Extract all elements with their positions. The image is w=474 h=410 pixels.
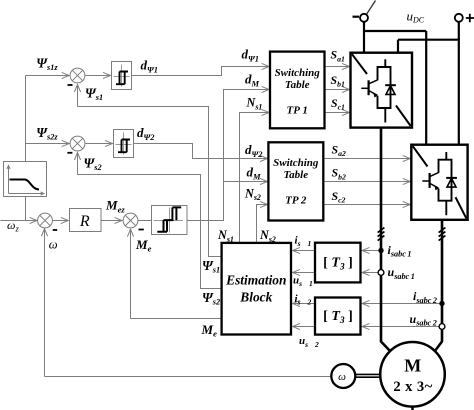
svg-text:TP 2: TP 2	[285, 195, 307, 207]
wire N_s1 to TP1	[240, 113, 270, 244]
wire node1 to hysteresis H1	[86, 75, 111, 77]
inverter VSI1 box	[351, 53, 413, 128]
svg-text:Sa1: Sa1	[331, 48, 345, 64]
svg-text:Ψs2: Ψs2	[84, 155, 102, 172]
wire S_c2	[324, 204, 410, 206]
shaft coupling lines	[355, 374, 382, 377]
svg-text:Sc2: Sc2	[332, 189, 346, 205]
wire d_M to TP1	[187, 90, 269, 221]
wire u_sabc2 tap to T3-2	[362, 326, 442, 328]
wire N_s2 to TP2	[257, 205, 268, 244]
minus sign	[353, 16, 360, 18]
inverter 2 output lead	[435, 220, 443, 352]
wire omega into speed node	[44, 229, 46, 377]
minus sign speed node	[53, 229, 58, 231]
wire u_sabc1 tap to T3-1	[362, 272, 381, 274]
inverter 1 output lead	[381, 128, 391, 352]
wire M_e into torque node	[130, 229, 132, 318]
svg-text:Table: Table	[285, 79, 310, 91]
wire i_sabc1 tap to T3-1	[362, 250, 381, 252]
wire S_a1	[325, 66, 350, 68]
svg-text:Estimation: Estimation	[225, 272, 286, 287]
svg-text:Ns2: Ns2	[244, 186, 261, 202]
IGBT with diode U2	[422, 152, 457, 215]
wire S_b1	[325, 89, 350, 91]
svg-text:Block: Block	[239, 290, 272, 305]
wire u_s2 T3-2 to Estimation	[293, 326, 316, 328]
wire d_M branch to TP2	[224, 181, 268, 183]
svg-text:isabc2: isabc2	[413, 289, 437, 305]
IGBT with diode U1	[361, 59, 396, 122]
svg-text:Ns2: Ns2	[259, 228, 276, 244]
wire torque node to torque hysteresis	[138, 220, 151, 222]
svg-text:us2: us2	[299, 335, 319, 349]
minus sign node2	[67, 152, 72, 154]
wire minus terminal down to inverter 1	[363, 22, 365, 53]
svg-text:Ψs2z: Ψs2z	[36, 125, 58, 142]
svg-text:Ψs1: Ψs1	[85, 85, 103, 102]
speed sensor circle	[331, 364, 355, 388]
wire node2 to hysteresis H2	[86, 143, 113, 145]
svg-text:Ψs2: Ψs2	[202, 290, 220, 307]
wire omega feedback	[45, 376, 332, 378]
flux weakening block	[4, 162, 47, 197]
wire minus bus to inverter 2	[363, 31, 426, 145]
node u_sabc1 tap ring	[378, 270, 384, 276]
plus terminal	[455, 14, 463, 22]
svg-text:dM: dM	[245, 72, 260, 89]
svg-text:isabc1: isabc1	[388, 243, 412, 259]
hysteresis comparator H2 box	[114, 130, 134, 158]
svg-text:ω: ω	[338, 371, 346, 383]
svg-text:usabc2: usabc2	[410, 312, 437, 328]
three-phase slashes lead 1	[378, 228, 385, 241]
svg-text:usabc1: usabc1	[388, 265, 415, 281]
wire Psi_s2 feedback	[78, 175, 223, 289]
svg-text:TP 1: TP 1	[287, 104, 308, 116]
svg-text:dΨ2: dΨ2	[137, 125, 155, 142]
svg-text:Sb2: Sb2	[332, 166, 346, 182]
svg-text:Me: Me	[201, 322, 218, 339]
svg-text:ω: ω	[49, 237, 58, 251]
switching table TP1 box	[270, 52, 325, 129]
summing node 1	[70, 68, 85, 83]
wire plus terminal down to inverter 2	[458, 22, 460, 145]
svg-text:R: R	[79, 213, 90, 230]
torque summing node	[123, 213, 138, 228]
inverter VSI2 corner diagonals	[413, 146, 467, 218]
wire S_b2	[324, 181, 410, 183]
svg-text:Ψs1z: Ψs1z	[36, 55, 58, 72]
summing node 2	[70, 136, 85, 151]
motor M 2x3 circle	[380, 342, 445, 407]
wire Psi_s2z to summing node 2	[26, 143, 70, 145]
node u_sabc2 tap ring	[439, 324, 445, 330]
wire Psi_s1z to summing node 1	[26, 75, 70, 77]
svg-text:us1: us1	[293, 275, 313, 289]
transformation block T3-2 box	[315, 298, 361, 335]
flux weakening curve	[10, 180, 40, 190]
wire i_sabc2 tap to T3-2	[362, 303, 442, 305]
wire Psi_s1 feedback	[78, 107, 223, 257]
svg-text:2 x 3~: 2 x 3~	[393, 379, 432, 395]
wire plus bus to inverter 1	[398, 40, 460, 53]
wire M_e feedback	[131, 318, 223, 320]
minus terminal	[360, 14, 368, 22]
DC bus minus lever	[366, 1, 375, 15]
three-phase slashes lead 2	[439, 228, 446, 241]
svg-text:Sa2: Sa2	[332, 142, 346, 158]
switching table TP2 box	[268, 142, 323, 220]
hysteresis comparator H1 box	[112, 62, 132, 90]
WIRES-THIN	[1, 67, 443, 377]
svg-text:dM: dM	[247, 165, 262, 182]
speed summing node	[38, 213, 53, 228]
wire flux reference vertical	[25, 76, 27, 162]
svg-text:Ψs1: Ψs1	[202, 258, 220, 275]
wire d_psi2 to TP2	[134, 144, 268, 159]
svg-text:Switching: Switching	[273, 157, 319, 169]
node i_sabc1 tap dot	[378, 248, 383, 253]
motor shaft stub	[411, 406, 414, 410]
svg-text:Ns1: Ns1	[246, 96, 263, 112]
svg-text:Table: Table	[283, 169, 308, 181]
wire d_psi1 to TP1	[132, 67, 269, 76]
svg-text:dΨ2: dΨ2	[245, 142, 263, 159]
wire M_ez R to torque node	[101, 220, 122, 222]
wire omega_z input	[1, 220, 38, 222]
svg-text:[ T3 ]: [ T3 ]	[323, 309, 353, 326]
wire S_c1	[325, 112, 350, 114]
svg-text:Mez: Mez	[105, 198, 125, 215]
svg-text:is1: is1	[295, 234, 312, 248]
wire u_s1 T3-1 to Estimation	[293, 272, 316, 274]
svg-text:Switching: Switching	[275, 67, 321, 79]
svg-text:uDC: uDC	[407, 9, 425, 25]
torque hysteresis 3-level box	[152, 206, 188, 235]
svg-text:dΨ1: dΨ1	[242, 46, 260, 63]
plus sign	[466, 14, 474, 22]
estimation block box	[222, 243, 291, 335]
svg-text:M: M	[404, 356, 421, 376]
hysteresis relay symbol H2	[118, 140, 130, 153]
transformation block T3-1 box	[315, 243, 361, 283]
inverter VSI1 corner diagonals	[352, 54, 411, 126]
wire i_s1 T3-1 to Estimation	[293, 250, 316, 252]
svg-text:dΨ1: dΨ1	[141, 57, 159, 74]
DC bus wires	[363, 22, 460, 145]
wire speed node to R	[53, 220, 69, 222]
svg-text:Ns1: Ns1	[217, 228, 234, 244]
emitter arrow	[373, 93, 378, 98]
node i_sabc2 tap dot	[439, 301, 444, 306]
minus sign torque node	[139, 229, 144, 231]
svg-text:Sc1: Sc1	[331, 96, 345, 112]
wire i_s2 T3-2 to Estimation	[293, 303, 316, 305]
wire Psi_s2 into node 2	[77, 153, 79, 175]
R speed controller box	[70, 209, 102, 232]
wire flux block input tap	[25, 197, 27, 221]
svg-text:Sb1: Sb1	[331, 73, 345, 89]
hysteresis relay symbol H1	[116, 72, 128, 85]
svg-text:Me: Me	[135, 237, 152, 254]
inverter VSI2 box	[411, 145, 467, 220]
wire S_a2	[324, 158, 410, 160]
wire Psi_s1 into node 1	[77, 85, 79, 107]
svg-text:is2: is2	[295, 293, 312, 307]
minus sign node1	[68, 84, 73, 86]
torque hysteresis 3-level symbol	[157, 207, 181, 231]
svg-text:[ T3 ]: [ T3 ]	[323, 256, 353, 273]
